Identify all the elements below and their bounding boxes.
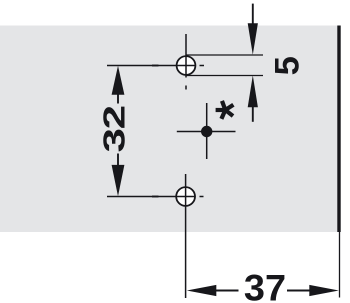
svg-text:5: 5 (269, 56, 307, 75)
svg-text:37: 37 (244, 267, 286, 303)
svg-text:32: 32 (98, 106, 132, 152)
